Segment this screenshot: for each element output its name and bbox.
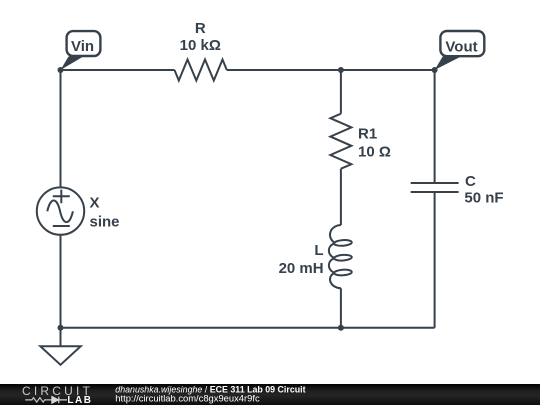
svg-text:10 kΩ: 10 kΩ [180,37,221,54]
svg-text:L: L [314,242,323,259]
footer bar [0,384,540,405]
logo resistor zigzag [25,398,52,402]
node ground dot [58,325,64,331]
wire R1 to L [340,169,342,225]
node R1 top junction dot [338,67,344,73]
wire left lower (source to ground node) [60,235,62,328]
Vin flag tail [61,57,84,71]
voltage source sine wave [47,201,73,223]
wire top left (Vin node to R) [61,69,175,71]
svg-text:sine: sine [90,214,120,231]
svg-text:Vin: Vin [71,38,94,55]
voltage source plus sign [53,190,70,204]
wire bottom [61,327,435,329]
svg-text:10 Ω: 10 Ω [358,143,391,160]
Vin flag box [67,31,101,56]
node Vout dot [432,67,438,73]
node Vin dot [58,67,64,73]
wire R1 top lead [340,70,342,114]
svg-text:C: C [465,173,476,190]
logo diode [52,397,67,404]
wire right upper (Vout node to C) [434,70,436,183]
svg-text:LAB: LAB [67,395,92,405]
ground triangle [40,346,80,365]
Vout flag tail [435,57,461,71]
capacitor C plates [411,183,459,192]
svg-text:X: X [90,195,100,212]
svg-text:R: R [195,20,206,37]
voltage source minus sign [53,225,70,227]
wire right lower (C to bottom) [434,192,436,328]
svg-text:20 mH: 20 mH [279,260,324,277]
resistor R1 [330,114,351,169]
svg-text:R1: R1 [358,125,377,142]
voltage source X circle [37,187,84,234]
svg-text:Vout: Vout [445,38,477,55]
wire top right (R to Vout node) [227,69,435,71]
svg-text:http://circuitlab.com/c8gx9eux: http://circuitlab.com/c8gx9eux4r9fc [115,393,260,404]
resistor R [175,60,227,81]
svg-text:50 nF: 50 nF [464,189,503,206]
wire L bottom lead [340,288,342,328]
node bottom junction dot [338,325,344,331]
Vout flag box [440,31,484,56]
ground stub [60,328,62,346]
wire left upper (Vin node to source) [60,70,62,187]
inductor L [329,225,352,288]
